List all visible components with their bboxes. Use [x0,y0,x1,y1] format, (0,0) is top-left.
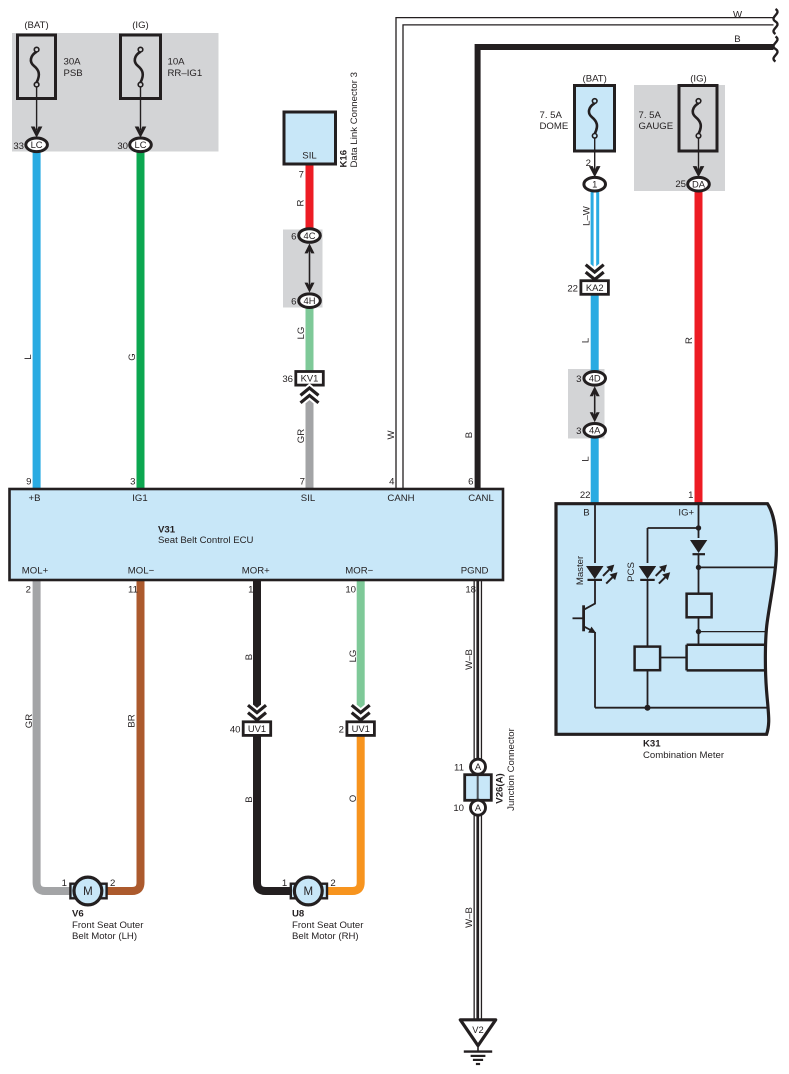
svg-text:L: L [23,354,34,360]
svg-text:V6: V6 [72,909,84,920]
wire GR KV1 to ECU SIL [306,397,314,489]
svg-text:Belt Motor (RH): Belt Motor (RH) [292,931,359,942]
svg-text:4A: 4A [589,425,601,436]
svg-text:RR–IG1: RR–IG1 [168,68,203,79]
svg-text:W: W [733,9,743,20]
connector pass-through gray box 4D/4A [568,369,605,439]
svg-text:MOL−: MOL− [128,566,155,577]
wire O (orange) UV1 to motor U8 [325,736,361,891]
svg-text:2: 2 [586,158,591,169]
svg-text:22: 22 [580,490,591,501]
K31 internal wire from pin 1 (IG+) [698,504,700,538]
svg-text:IG1: IG1 [132,493,147,504]
big block (clipped by wavy edge) [687,645,765,671]
svg-text:Front Seat Outer: Front Seat Outer [292,920,364,931]
svg-text:SIL: SIL [301,493,316,504]
control box (lower left) [635,647,661,671]
junction connector 40 UV1 [243,722,271,736]
connector 11 A [471,759,486,774]
svg-text:2: 2 [110,878,115,889]
svg-text:L: L [581,456,592,462]
svg-text:25: 25 [675,179,686,190]
ground stem [477,1046,479,1052]
node IG+ branch [696,525,701,530]
V31 Seat Belt Control ECU box [10,489,504,580]
svg-text:L–W: L–W [582,205,593,226]
svg-text:PSB: PSB [64,68,83,79]
connector 3 4A [584,424,606,438]
svg-text:MOR−: MOR− [345,566,373,577]
svg-text:V2: V2 [472,1024,483,1035]
chevron marks above UV1 no.2 (pointing down) [352,705,370,720]
K16 Data Link Connector 3 box (SIL) [284,112,336,164]
svg-text:MOR+: MOR+ [242,566,270,577]
svg-text:4H: 4H [304,295,316,306]
svg-text:LC: LC [135,139,147,150]
wire L (blue) 4A to K31 pin22 [591,436,599,503]
svg-text:PGND: PGND [461,566,489,577]
svg-text:DOME: DOME [540,121,569,132]
svg-text:B: B [583,508,589,519]
svg-text:11: 11 [454,762,464,773]
wire PCS branch down [647,528,649,563]
svg-text:30: 30 [117,141,128,152]
svg-text:10A: 10A [168,57,186,68]
svg-text:7. 5A: 7. 5A [639,110,662,121]
node below resistor box [696,629,701,634]
svg-text:B: B [464,432,475,438]
wire R (red) SIL to 4C [306,162,314,232]
wire B (CANL) thick black up and right to break [478,47,774,489]
fuse 30A PSB box [18,35,56,99]
svg-text:W–B: W–B [464,649,475,670]
svg-text:11: 11 [128,584,138,595]
fuse 7.5A GAUGE box [679,86,717,152]
svg-text:33: 33 [13,141,24,152]
svg-text:Belt Motor (LH): Belt Motor (LH) [72,931,137,942]
wire node to right edge (thin) [699,631,766,633]
motor V6 [74,877,102,905]
wire BR (brown) ECU MOL- to motor V6 [106,579,141,891]
wire R (red) DA to K31 pin1 [695,189,703,503]
svg-text:3: 3 [130,476,135,487]
chevron marks above KA2 (pointing down) [586,265,604,280]
chevron marks above UV1 no.40 (pointing down) [248,705,266,720]
svg-text:10: 10 [453,803,464,814]
double arrow between 4C and 4H [305,243,315,292]
bottom rail inside K31 [595,707,767,709]
wire L-W (blue/white striped) oval 1 to KA2 [591,188,594,269]
wire fuse RR-IG1 to connector LC [140,87,142,131]
svg-text:(IG): (IG) [132,20,149,31]
svg-text:Junction Connector: Junction Connector [506,727,517,810]
svg-text:B: B [244,796,255,802]
connector oval 1 [584,177,606,191]
LED Master [586,565,618,584]
svg-text:KA2: KA2 [586,282,604,293]
svg-text:4: 4 [389,476,395,487]
svg-text:W: W [386,430,397,440]
double arrow between 4D and 4A [590,386,600,422]
svg-text:O: O [348,795,359,802]
connector pass-through gray box 4C/4H [283,230,323,308]
K31 internal wire from pin 22 (B) [594,504,596,563]
diode D1 [690,540,707,554]
wire B (black) ECU MOR+ to UV1 [253,579,261,722]
junction connector 36 KV1 [296,372,324,386]
svg-text:3: 3 [576,426,581,437]
svg-text:V31: V31 [158,525,176,536]
svg-text:7: 7 [300,476,305,487]
connector 6 4H [299,294,321,308]
svg-text:1: 1 [62,878,67,889]
svg-text:36: 36 [282,374,293,385]
wire box to big box [698,617,700,644]
svg-text:B: B [244,654,255,660]
svg-text:K16: K16 [338,150,349,168]
wire W-B (PGND) ECU to ground V2 [474,579,483,1020]
svg-text:V26(A): V26(A) [495,773,506,803]
svg-text:R: R [296,199,307,206]
wire LED Master to transistor [594,580,596,604]
chevron marks below KV1 (pointing up) [301,388,319,403]
svg-text:UV1: UV1 [352,723,370,734]
svg-text:MOL+: MOL+ [22,566,49,577]
svg-text:(BAT): (BAT) [583,74,607,85]
svg-text:1: 1 [248,584,253,595]
ground V2 triangle [460,1020,495,1046]
fuse 10A RR-IG1 element [135,47,143,87]
connector 33 LC [26,138,48,152]
svg-text:10: 10 [345,584,356,595]
svg-text:PCS: PCS [626,562,637,582]
connector 25 DA [688,177,710,191]
ground bars [464,1052,492,1064]
svg-text:2: 2 [339,724,344,735]
svg-text:4D: 4D [589,373,601,384]
wire LED PCS to box [647,580,649,647]
transistor Q (meter driver) [573,603,597,633]
svg-text:A: A [475,761,482,772]
svg-text:Data Link Connector 3: Data Link Connector 3 [349,72,360,167]
svg-text:Front Seat Outer: Front Seat Outer [72,920,144,931]
svg-text:7: 7 [299,170,304,181]
svg-text:3: 3 [576,374,581,385]
svg-text:Master: Master [575,555,586,585]
wire W (CANH) double line up and right to break [396,18,774,489]
svg-text:LG: LG [296,327,307,340]
fuse 7.5A GAUGE element [693,99,701,138]
connector 30 LC [130,138,152,152]
svg-text:BR: BR [127,714,138,727]
svg-text:K31: K31 [643,739,661,750]
wire node to right edge [699,566,775,568]
motor U8 [294,877,322,905]
svg-text:30A: 30A [64,57,82,68]
svg-text:(IG): (IG) [690,74,707,85]
GAUGE fuse gray box [634,85,725,191]
svg-text:22: 22 [567,283,578,294]
svg-text:2: 2 [330,878,335,889]
connector 10 A [471,800,486,815]
svg-text:CANL: CANL [468,493,494,504]
svg-text:M: M [304,886,314,898]
wire fuse DOME to connector 1 [594,138,596,171]
junction dot on rail [645,705,651,711]
svg-text:1: 1 [592,179,597,190]
svg-text:1: 1 [282,878,287,889]
svg-text:6: 6 [291,231,296,242]
motor U8 terminals [291,884,299,899]
wire LG 4H to KV1 [306,305,314,372]
svg-text:M: M [83,886,93,898]
wire B (black) UV1 to motor U8 [257,736,292,891]
resistor box (upper) [687,594,712,618]
svg-text:CANH: CANH [387,493,414,504]
fuse 7.5A DOME element [589,99,597,138]
fuse 10A RR-IG1 box [121,35,161,99]
svg-text:DA: DA [692,179,706,190]
svg-text:1: 1 [688,490,693,501]
svg-text:Combination Meter: Combination Meter [643,750,725,761]
node after diode [696,565,701,570]
wire control box to rail [647,670,649,708]
svg-text:GR: GR [24,714,35,728]
wire G (green) fuse RR-IG1 to ECU IG1 [137,147,145,489]
svg-text:U8: U8 [292,909,305,920]
svg-text:SIL: SIL [302,151,317,162]
wire L (blue) fuse PSB to ECU +B [33,147,41,489]
svg-text:+B: +B [28,493,40,504]
junction connector 2 UV1 [347,722,375,736]
svg-text:Seat Belt Control ECU: Seat Belt Control ECU [158,535,254,546]
svg-text:7. 5A: 7. 5A [540,110,563,121]
wire transistor emitter to bottom rail [594,632,596,708]
wire L (blue) KA2 to 4D [591,294,599,372]
svg-text:40: 40 [230,724,241,735]
svg-text:2: 2 [26,584,31,595]
wire GR (gray) ECU MOL+ to motor V6 [37,579,71,891]
motor V6 terminals [70,884,78,899]
LED PCS [639,565,671,584]
svg-text:IG+: IG+ [678,508,694,519]
V26(A) junction connector square [465,775,492,801]
fuse block gray box (top left) [12,33,219,152]
svg-text:4C: 4C [304,230,316,241]
svg-text:6: 6 [468,476,473,487]
wire break squiggle B [773,37,777,62]
svg-text:LG: LG [348,650,359,663]
fuse 30A PSB element [31,47,39,87]
svg-text:G: G [127,353,138,360]
svg-text:KV1: KV1 [301,373,319,384]
svg-text:6: 6 [291,297,296,308]
svg-text:L: L [581,337,592,343]
svg-text:R: R [684,337,695,344]
svg-text:GR: GR [296,429,307,443]
connector 3 4D [584,372,606,386]
junction connector 22 KA2 [581,281,609,295]
wire through V26(A) [477,776,479,799]
svg-text:A: A [475,802,482,813]
K31 Combination Meter box (wavy right edge) [556,504,776,735]
svg-text:LC: LC [31,139,43,150]
svg-text:W–B: W–B [464,907,475,928]
svg-text:UV1: UV1 [248,723,266,734]
wire fuse GAUGE to connector DA [698,138,700,171]
svg-text:B: B [734,34,740,45]
svg-text:9: 9 [26,476,31,487]
fuse 7.5A DOME box [575,86,615,152]
wire fuse PSB to connector LC [36,87,38,131]
svg-text:18: 18 [465,584,476,595]
wire LG ECU MOR- to UV1 [357,579,365,722]
wire IG+ branch to PCS [648,527,699,529]
wire control box to big block [660,657,687,659]
svg-text:(BAT): (BAT) [24,20,48,31]
wire break squiggle W [773,9,777,34]
connector 6 4C [299,229,321,243]
wire diode to box [698,555,700,594]
svg-text:GAUGE: GAUGE [639,121,674,132]
